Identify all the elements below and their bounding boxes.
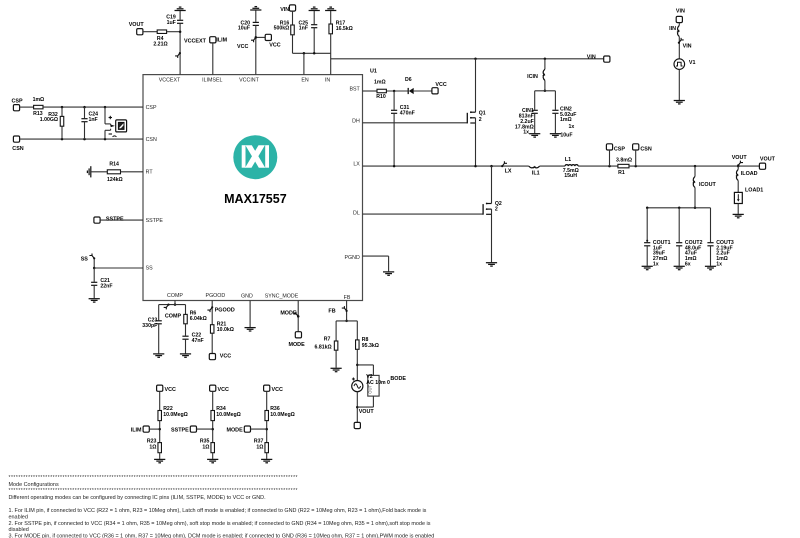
svg-text:MODE: MODE xyxy=(289,342,306,348)
svg-text:AC 10m 0: AC 10m 0 xyxy=(366,380,390,386)
svg-text:U1: U1 xyxy=(370,68,377,74)
svg-text:VCCEXT: VCCEXT xyxy=(184,38,207,44)
svg-text:CSP: CSP xyxy=(146,105,157,111)
svg-text:DL: DL xyxy=(353,211,360,217)
svg-text:VCC: VCC xyxy=(220,354,231,360)
svg-text:CSP: CSP xyxy=(614,147,625,153)
svg-text:10.0MegΩ: 10.0MegΩ xyxy=(216,412,241,418)
svg-text:1uF: 1uF xyxy=(167,20,176,26)
svg-text:1nF: 1nF xyxy=(299,26,308,32)
svg-text:IN: IN xyxy=(325,77,330,83)
svg-text:10.0MegΩ: 10.0MegΩ xyxy=(163,412,188,418)
svg-text:PGOOD: PGOOD xyxy=(215,308,235,314)
svg-text:R7: R7 xyxy=(324,336,331,342)
svg-text:SYNC_MODE: SYNC_MODE xyxy=(265,293,299,299)
svg-text:VIN: VIN xyxy=(683,43,692,49)
svg-text:22nF: 22nF xyxy=(100,284,112,290)
svg-text:VIN: VIN xyxy=(587,54,596,60)
svg-text:1x: 1x xyxy=(569,124,575,130)
svg-text:1x: 1x xyxy=(653,261,659,267)
svg-text:VIN: VIN xyxy=(280,7,289,13)
svg-text:VCCEXT: VCCEXT xyxy=(159,77,181,83)
svg-text:ICIN: ICIN xyxy=(527,74,538,80)
svg-text:BODE: BODE xyxy=(390,376,406,382)
svg-text:1mΩ: 1mΩ xyxy=(374,79,386,85)
svg-text:500kΩ: 500kΩ xyxy=(274,26,290,32)
svg-text:VCC: VCC xyxy=(165,387,176,393)
svg-text:CSN: CSN xyxy=(12,146,23,152)
svg-text:FB: FB xyxy=(328,309,335,315)
svg-text:1. For ILIM pin, if connected: 1. For ILIM pin, if connected to VCC (R2… xyxy=(9,508,427,514)
svg-text:ICOUT: ICOUT xyxy=(699,182,716,188)
svg-text:1x: 1x xyxy=(523,129,529,135)
svg-text:1Ω: 1Ω xyxy=(256,444,263,450)
svg-text:IL1: IL1 xyxy=(532,171,540,177)
svg-text:VOUT: VOUT xyxy=(129,22,145,28)
svg-text:1.00GΩ: 1.00GΩ xyxy=(40,117,58,123)
svg-text:ILOAD: ILOAD xyxy=(741,171,758,177)
svg-text:470nF: 470nF xyxy=(400,111,415,117)
svg-text:FB: FB xyxy=(344,295,351,301)
svg-text:2.21Ω: 2.21Ω xyxy=(153,41,167,47)
svg-text:IIN: IIN xyxy=(669,26,676,32)
svg-text:CSP: CSP xyxy=(11,99,22,105)
svg-text:124kΩ: 124kΩ xyxy=(107,177,123,183)
svg-text:L1: L1 xyxy=(565,157,571,163)
svg-text:VOUT: VOUT xyxy=(732,155,748,161)
svg-text:R10: R10 xyxy=(376,94,386,100)
svg-text:OUT: OUT xyxy=(368,385,373,394)
svg-text:1mΩ: 1mΩ xyxy=(560,117,572,123)
svg-text:VCC: VCC xyxy=(435,82,446,88)
svg-text:2: 2 xyxy=(479,117,482,123)
svg-text:EN: EN xyxy=(301,77,309,83)
svg-text:1nF: 1nF xyxy=(89,117,98,123)
svg-text:Different operating modes can: Different operating modes can be configu… xyxy=(9,495,267,501)
svg-text:ILIMSEL: ILIMSEL xyxy=(202,77,222,83)
svg-text:D6: D6 xyxy=(405,77,412,83)
svg-text:SSTPE: SSTPE xyxy=(146,218,164,224)
svg-text:2: 2 xyxy=(495,206,498,212)
svg-text:GND: GND xyxy=(241,293,253,299)
svg-text:VIN: VIN xyxy=(676,9,685,15)
svg-text:1x: 1x xyxy=(716,261,722,267)
svg-text:VCC: VCC xyxy=(218,387,229,393)
svg-text:CSN: CSN xyxy=(146,137,157,143)
svg-text:COMP: COMP xyxy=(165,314,182,320)
svg-text:CSN: CSN xyxy=(640,147,651,153)
svg-text:BST: BST xyxy=(349,87,360,93)
svg-text:LOAD1: LOAD1 xyxy=(745,188,763,194)
svg-text:6.81kΩ: 6.81kΩ xyxy=(315,344,332,350)
svg-text:VCC: VCC xyxy=(269,43,280,49)
svg-text:330pF: 330pF xyxy=(142,323,157,329)
svg-text:16.5kΩ: 16.5kΩ xyxy=(336,26,353,32)
svg-text:MAX17557: MAX17557 xyxy=(224,192,287,206)
svg-text:ILIM: ILIM xyxy=(131,428,142,434)
svg-text:MODE: MODE xyxy=(227,428,244,434)
svg-text:PGOOD: PGOOD xyxy=(206,293,226,299)
svg-text:47nF: 47nF xyxy=(192,338,204,344)
svg-text:LX: LX xyxy=(505,168,512,174)
svg-text:3. For MODE pin, if connected: 3. For MODE pin, if connected to VCC (R3… xyxy=(9,534,435,538)
svg-text:VCC: VCC xyxy=(237,44,248,50)
svg-text:VCC: VCC xyxy=(272,387,283,393)
svg-text:2. For SSTPE pin, if connected: 2. For SSTPE pin, if connected to VCC (R… xyxy=(9,521,431,527)
svg-text:95.3kΩ: 95.3kΩ xyxy=(362,343,379,349)
svg-text:10uF: 10uF xyxy=(238,26,250,32)
svg-text:6x: 6x xyxy=(685,261,691,267)
svg-text:6.04kΩ: 6.04kΩ xyxy=(190,316,207,322)
svg-text:R1: R1 xyxy=(618,170,625,176)
svg-text:1Ω: 1Ω xyxy=(202,444,209,450)
svg-text:******************************: ****************************************… xyxy=(9,475,298,481)
svg-text:VCCINT: VCCINT xyxy=(239,77,259,83)
svg-text:R13: R13 xyxy=(33,111,43,117)
svg-text:3.8mΩ: 3.8mΩ xyxy=(616,158,632,164)
svg-text:VOUT: VOUT xyxy=(760,157,776,163)
svg-text:10.0kΩ: 10.0kΩ xyxy=(217,327,234,333)
svg-text:enabled: enabled xyxy=(9,514,28,520)
svg-text:SS: SS xyxy=(81,256,89,262)
svg-text:Q1: Q1 xyxy=(479,110,486,116)
svg-text:15uH: 15uH xyxy=(564,173,577,179)
svg-text:R14: R14 xyxy=(109,161,119,167)
svg-text:LX: LX xyxy=(353,162,360,168)
svg-text:V1: V1 xyxy=(689,60,696,66)
svg-text:SSTPE: SSTPE xyxy=(106,216,124,222)
svg-text:10uF: 10uF xyxy=(560,132,572,138)
svg-text:******************************: ****************************************… xyxy=(9,488,298,494)
svg-text:1Ω: 1Ω xyxy=(149,444,156,450)
svg-text:ILIM: ILIM xyxy=(216,38,227,44)
svg-text:DH: DH xyxy=(352,118,360,124)
svg-text:MODE: MODE xyxy=(280,310,297,316)
svg-text:SSTPE: SSTPE xyxy=(171,428,189,434)
svg-text:RT: RT xyxy=(146,170,154,176)
svg-text:disabled: disabled xyxy=(9,527,29,533)
svg-text:VOUT: VOUT xyxy=(359,409,375,415)
svg-text:10.0MegΩ: 10.0MegΩ xyxy=(270,412,295,418)
svg-text:PGND: PGND xyxy=(344,255,359,261)
svg-text:COMP: COMP xyxy=(167,293,183,299)
svg-text:SS: SS xyxy=(146,266,154,272)
svg-text:1mΩ: 1mΩ xyxy=(33,97,45,103)
